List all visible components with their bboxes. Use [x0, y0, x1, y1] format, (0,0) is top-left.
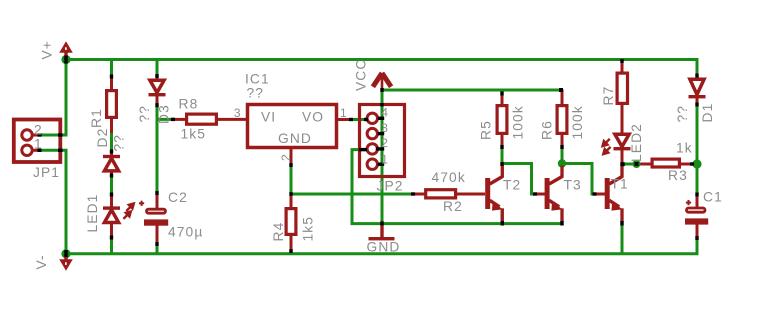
- svg-text:1: 1: [381, 152, 389, 166]
- svg-text:VCC: VCC: [354, 59, 369, 91]
- svg-text:C1: C1: [703, 190, 723, 205]
- svg-text:??: ??: [112, 134, 127, 152]
- svg-text:D3: D3: [157, 104, 172, 124]
- svg-text:VI: VI: [261, 110, 276, 125]
- svg-text:V-: V-: [34, 254, 49, 269]
- svg-text:JP1: JP1: [33, 165, 60, 180]
- svg-text:1k: 1k: [676, 141, 693, 156]
- svg-text:4: 4: [381, 105, 389, 119]
- svg-text:IC1: IC1: [245, 72, 270, 87]
- svg-text:GND: GND: [367, 240, 401, 255]
- svg-text:R1: R1: [89, 108, 104, 128]
- svg-text:R6: R6: [540, 120, 555, 140]
- svg-text:JP2: JP2: [377, 179, 404, 194]
- svg-text:470µ: 470µ: [168, 225, 203, 240]
- svg-text:R8: R8: [179, 97, 199, 112]
- svg-text:R4: R4: [271, 222, 286, 242]
- svg-text:1k5: 1k5: [181, 127, 207, 142]
- svg-text:1k5: 1k5: [301, 216, 316, 242]
- svg-text:??: ??: [675, 105, 690, 123]
- svg-text:470k: 470k: [432, 170, 466, 185]
- svg-text:V+: V+: [40, 40, 55, 59]
- svg-text:100k: 100k: [511, 105, 526, 139]
- svg-text:D1: D1: [700, 103, 715, 123]
- svg-text:T3: T3: [564, 178, 582, 193]
- svg-text:2: 2: [279, 153, 293, 161]
- svg-text:3: 3: [381, 121, 389, 135]
- svg-text:C2: C2: [168, 190, 188, 205]
- svg-text:T1: T1: [611, 177, 629, 192]
- svg-text:1: 1: [34, 137, 43, 152]
- svg-text:R7: R7: [601, 86, 616, 106]
- svg-text:D2: D2: [95, 128, 110, 148]
- svg-text:100k: 100k: [570, 105, 585, 139]
- svg-text:GND: GND: [278, 131, 312, 146]
- svg-text:VO: VO: [302, 110, 324, 125]
- svg-text:2: 2: [34, 123, 43, 138]
- svg-text:R2: R2: [443, 199, 463, 214]
- svg-text:R3: R3: [668, 168, 688, 183]
- svg-text:??: ??: [137, 105, 152, 123]
- svg-text:R5: R5: [479, 120, 494, 140]
- svg-text:??: ??: [247, 86, 265, 101]
- svg-text:T2: T2: [503, 178, 521, 193]
- svg-text:3: 3: [234, 106, 242, 120]
- svg-text:1: 1: [340, 106, 348, 120]
- svg-text:LED1: LED1: [85, 194, 100, 233]
- svg-text:LED2: LED2: [629, 123, 644, 162]
- svg-text:2: 2: [381, 136, 389, 150]
